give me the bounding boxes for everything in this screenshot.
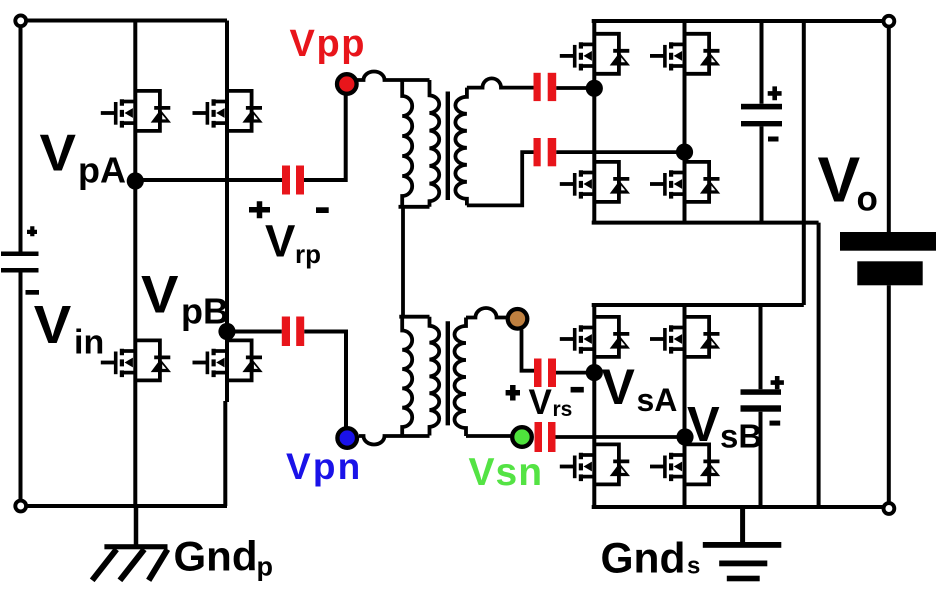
plus sign Co2 (771, 376, 784, 389)
svg-text:rp: rp (295, 239, 321, 269)
wire: Vo rail upper (887, 21, 891, 232)
wire: primary left rail lower (19, 273, 23, 507)
svg-text:Vpp: Vpp (290, 23, 367, 65)
transistor Q10 lower bridge leg2 top (650, 317, 720, 357)
capacitor Co2 plate bottom (741, 405, 782, 411)
node VsA junction dot (586, 364, 603, 381)
core T1 (446, 92, 450, 201)
wire: Vpp to transformer T1 primary (hop) (357, 72, 430, 81)
wire: Vo rail lower (887, 285, 891, 501)
wire: T1 secondary bottom lead riser (467, 152, 534, 205)
minus sign Vin (26, 290, 40, 295)
transistor Q6 upper bridge leg2 top (650, 34, 720, 74)
wire: secondary leg 1 upper bridge (592, 21, 596, 223)
wire: series link T1 to T2 primary (401, 207, 405, 317)
capacitor CrpB (VpB blocking) (282, 317, 290, 347)
node VpA junction dot (127, 172, 144, 189)
winding T2 secondary (455, 318, 467, 437)
wire: upper bridge bottom rail (592, 221, 819, 225)
plus sign Co1 (768, 86, 782, 100)
transistor Q11 lower bridge leg1 bottom (560, 444, 630, 484)
svg-text:V: V (34, 296, 72, 355)
wire: secondary leg 2 upper bridge (683, 21, 687, 223)
terminal top-left (15, 15, 26, 26)
wire: T1 primary bottom bus (399, 205, 430, 209)
wire: filter cap 2 bottom lead (759, 412, 763, 507)
ground Gnd_s bar 1 (703, 542, 782, 548)
wire: capacitor Crp to Vpp riser (304, 95, 346, 180)
svg-text:sA: sA (637, 382, 678, 418)
svg-text:V: V (40, 125, 77, 183)
transistor Q9 lower bridge leg1 top (560, 317, 630, 357)
wire: brown node down to capacitor Crs (522, 330, 535, 371)
winding T1 primary coil 1 (402, 80, 412, 207)
svg-text:rs: rs (553, 398, 573, 421)
wire: green node capacitor to VsB (555, 435, 685, 439)
transistor Q1 high-side leg A (101, 91, 171, 131)
wire: primary bottom bus (21, 504, 228, 508)
capacitor Cs1b (T1 secondary bottom) (534, 138, 541, 166)
wire: T2 secondary bottom lead to green node (466, 434, 511, 438)
svg-text:Vpn: Vpn (286, 446, 362, 487)
capacitor Vin plate bottom (1, 268, 39, 273)
ground Gnd_p bar (104, 544, 167, 549)
winding T1 primary coil 2 (430, 80, 440, 207)
ground Gnd_p hatch 2 (120, 549, 144, 580)
ground Gnd_s stem (740, 507, 745, 544)
wire: capacitor CrpB to Vpn riser (304, 332, 346, 427)
ground Gnd_s bar 3 (727, 576, 760, 582)
capacitor Co2 plate top (741, 389, 782, 395)
svg-text:V: V (602, 359, 636, 415)
node junction dot upper bridge leg1 (586, 80, 603, 97)
minus sign Vrp (316, 207, 329, 213)
ground Gnd_p hatch 3 (149, 549, 168, 580)
transistor Q5 upper bridge leg1 top (560, 34, 630, 74)
plus sign Vrp (249, 201, 270, 218)
transistor Q3 low-side leg A (101, 340, 171, 380)
capacitor Crs (T2 secondary top) (534, 359, 542, 388)
svg-text:V: V (818, 144, 861, 216)
capacitor Crp (VpA blocking) (282, 166, 290, 195)
transistor Q8 upper bridge leg2 bottom (650, 162, 720, 202)
minus sign Co1 (768, 137, 779, 142)
wire: secondary leg 1 lower bridge (592, 305, 596, 507)
capacitor Co1 plate top (741, 104, 782, 110)
wire: primary top bus (21, 19, 228, 23)
node VpB junction dot (218, 323, 235, 340)
core T2 (446, 321, 450, 425)
ground Gnd_s bar 2 (719, 561, 767, 567)
wire: secondary leg 2 lower bridge (683, 305, 687, 507)
capacitor Cs1a (T1 secondary top) (534, 73, 541, 101)
wire: leg B (225, 21, 227, 507)
wire: primary left rail upper (19, 21, 23, 252)
svg-text:V: V (141, 266, 179, 325)
wire: filter cap 2 top lead (759, 305, 763, 389)
wire: capacitor Crs to VsA (556, 371, 594, 375)
wire: filter cap 1 top lead (760, 21, 764, 104)
minus sign Co2 (770, 421, 781, 426)
wire: T2 secondary top lead to brown node (hop) (466, 308, 507, 318)
capacitor Cs2b (T2 secondary bottom) (535, 422, 543, 452)
wire: secondary top bus (592, 19, 889, 23)
wire: VpB node to capacitor CrpB (227, 330, 282, 334)
battery Vo plate 2 (857, 261, 922, 285)
svg-text:p: p (257, 552, 274, 582)
node brown terminal (508, 309, 528, 329)
ground Gnd_p hatch 1 (92, 549, 116, 580)
transistor Q2 high-side leg B (193, 91, 263, 131)
capacitor Co1 plate bottom (741, 121, 782, 126)
node Vpp (red terminal) (337, 74, 357, 94)
svg-text:o: o (857, 180, 878, 219)
wire: parallel link negative (817, 223, 821, 507)
winding T1 secondary (455, 88, 467, 206)
svg-text:Vsn: Vsn (469, 451, 544, 494)
svg-text:pB: pB (181, 291, 229, 332)
svg-text:Gnd: Gnd (601, 536, 686, 583)
minus sign Vrs (571, 387, 584, 393)
wire: filter cap 1 bottom lead (760, 126, 764, 222)
svg-text:sB: sB (720, 418, 762, 455)
svg-text:pA: pA (78, 150, 126, 191)
ground Gnd_p stem (134, 506, 139, 547)
svg-text:V: V (265, 216, 296, 267)
transistor Q12 lower bridge leg2 bottom (650, 444, 720, 484)
wire: T1 secondary top lead (hop) (467, 78, 534, 87)
wire: T2 primary top bus (399, 315, 429, 319)
plus sign Vrs (506, 385, 520, 401)
wire: lower bridge top rail (592, 303, 804, 307)
node junction dot upper bridge leg2 (676, 144, 693, 161)
wire: leg A (133, 21, 137, 507)
wire: parallel link positive (802, 21, 806, 305)
svg-text:V: V (687, 398, 720, 452)
winding T2 primary coil 2 (430, 317, 440, 436)
plus sign Vin (27, 226, 37, 236)
wire: T1 secondary cap to node bottom (556, 150, 684, 154)
svg-text:V: V (529, 383, 553, 422)
node Vsn (green terminal) (512, 427, 532, 447)
wire: VpA node to capacitor Crp (135, 178, 282, 182)
svg-text:s: s (687, 553, 700, 580)
wire: Vpn to T2 primary bottom (hop) (359, 436, 430, 445)
terminal bottom-left (15, 501, 26, 512)
terminal top-right (884, 16, 895, 27)
node Vpn (blue terminal) (337, 428, 357, 448)
capacitor Vin plate top (1, 252, 39, 257)
terminal bottom-right (884, 503, 895, 514)
svg-text:in: in (74, 324, 104, 362)
battery Vo plate 1 (840, 232, 936, 251)
transistor Q4 low-side leg B (193, 340, 263, 380)
wire: T1 secondary cap to node top (556, 86, 594, 90)
wire: secondary bottom bus (592, 505, 889, 509)
svg-text:Gnd: Gnd (174, 533, 258, 580)
node VsB junction dot (676, 428, 693, 445)
transistor Q7 upper bridge leg1 bottom (560, 162, 630, 202)
winding T2 primary coil 1 (402, 317, 412, 436)
